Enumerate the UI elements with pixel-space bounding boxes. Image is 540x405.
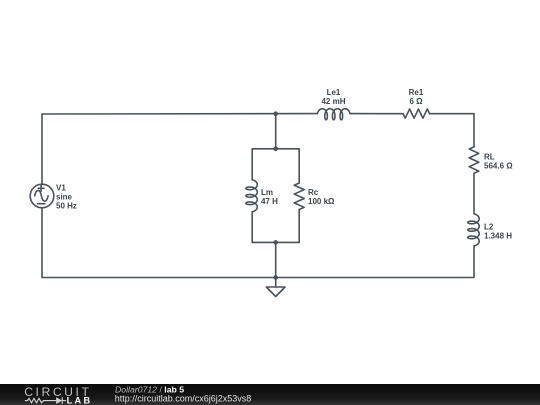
wire RL to L2 xyxy=(473,173,475,214)
svg-text:sine: sine xyxy=(56,193,73,202)
inductor Lm xyxy=(246,180,257,212)
svg-text:Lm: Lm xyxy=(261,188,273,197)
svg-text:Re1: Re1 xyxy=(409,88,424,97)
wire top junction to parallel box xyxy=(275,114,277,149)
wire Re1 to top-right corner down to RL xyxy=(430,114,475,147)
svg-text:Le1: Le1 xyxy=(327,88,341,97)
svg-text:47 H: 47 H xyxy=(261,197,278,206)
svg-text:Rc: Rc xyxy=(308,188,319,197)
voltage source V1 xyxy=(30,184,54,208)
svg-text:100 kΩ: 100 kΩ xyxy=(308,197,335,206)
svg-text:6 Ω: 6 Ω xyxy=(409,97,423,106)
parallel box top edge xyxy=(252,148,299,150)
box right side upper xyxy=(298,149,300,183)
svg-text:L2: L2 xyxy=(484,223,494,232)
svg-text:http://circuitlab.com/cx6j6j2x: http://circuitlab.com/cx6j6j2x53vs8 xyxy=(115,394,252,404)
box left side upper xyxy=(251,149,253,180)
svg-text:1.348 H: 1.348 H xyxy=(484,232,512,241)
wire top-left to Le1 xyxy=(42,114,317,184)
logo diode triangle xyxy=(56,397,62,404)
svg-text:564.6 Ω: 564.6 Ω xyxy=(484,162,513,171)
svg-text:LAB: LAB xyxy=(67,396,93,405)
ground triangle xyxy=(266,287,285,297)
box bottom edge xyxy=(252,241,299,243)
junction dot box bottom xyxy=(273,240,278,245)
ground stem xyxy=(275,278,277,288)
wire Le1 to Re1 xyxy=(350,113,403,115)
svg-text:50 Hz: 50 Hz xyxy=(56,202,77,211)
resistor Rc xyxy=(294,183,304,210)
resistor Re1 xyxy=(403,109,430,118)
inductor L2 xyxy=(468,214,479,246)
svg-text:RL: RL xyxy=(484,153,495,162)
svg-text:V1: V1 xyxy=(56,184,66,193)
junction dot bottom wire xyxy=(273,275,278,280)
resistor RL xyxy=(469,147,479,174)
junction dot top xyxy=(273,111,278,116)
inductor Le1 xyxy=(317,109,350,120)
logo resistor zigzag wire xyxy=(25,397,66,404)
wire L2 to bottom-right corner to ground node xyxy=(42,208,474,278)
wire box bottom to ground wire xyxy=(275,242,277,277)
box left side lower xyxy=(251,212,253,243)
box right side lower xyxy=(298,210,300,243)
junction dot box top xyxy=(273,147,278,152)
svg-text:42 mH: 42 mH xyxy=(321,97,345,106)
